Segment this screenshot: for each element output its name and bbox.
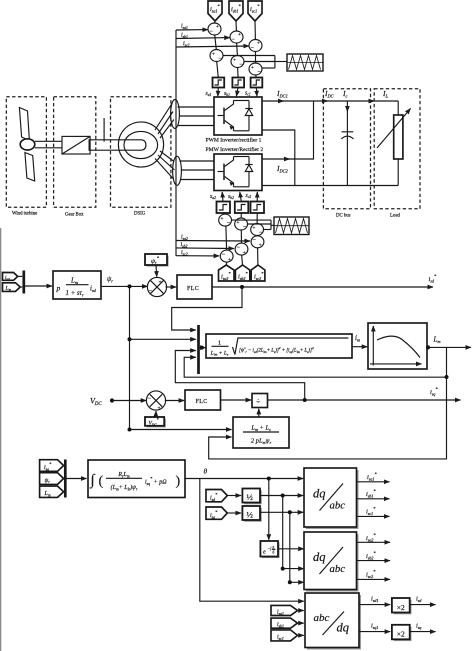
hysteresis comparator A1 — [213, 78, 225, 88]
magnetizing inductance curve block — [368, 323, 427, 369]
dq/abc block 1 — [306, 470, 359, 529]
stator winding 2 fan lines — [160, 151, 174, 162]
wire hysteresis C1 to inverter1 — [255, 88, 258, 97]
summer C2 — [251, 236, 264, 248]
freewheel diode D2 inside inverter 2 — [234, 157, 253, 187]
wire summer A1 to carrier summer A — [215, 35, 217, 50]
reference tag i*_sb2 — [235, 265, 249, 281]
wire hysteresis B2 from carrier summer B2 — [240, 213, 242, 218]
wire half1 branch down to dq/abc 2 — [283, 496, 304, 569]
wire i*_sq to magnitude merge — [175, 351, 304, 401]
wire tag3 to summer C1 — [254, 21, 256, 39]
svg-text:dq: dq — [313, 550, 326, 564]
svg-text:×2: ×2 — [397, 603, 405, 612]
wire i_sa1 feedback — [176, 29, 208, 31]
carrier summer A2 — [219, 214, 232, 226]
svg-text:+: + — [259, 244, 262, 249]
wire flux summer to FLC — [166, 286, 177, 288]
wire FLC2 to divider — [221, 399, 252, 401]
wire theta to phase shift block — [268, 479, 270, 540]
dq1 output i*_sb1 — [357, 498, 390, 500]
svg-text:½: ½ — [247, 510, 254, 520]
dq2 output i*_sb2 — [357, 560, 391, 562]
stator winding 2 terminal ellipse — [173, 156, 182, 185]
svg-text:abc: abc — [330, 500, 346, 512]
DSIG inner rotor ellipse — [124, 131, 158, 158]
abc/dq output i_sq1 to times2 — [359, 631, 390, 633]
summer A1 — [208, 23, 221, 35]
wire hysteresis B2 to inverter 2 — [240, 192, 242, 202]
summer A2 — [220, 250, 233, 262]
abc/dq block — [307, 595, 361, 650]
carrier summer B1 — [231, 56, 244, 68]
svg-text:DC bus: DC bus — [336, 214, 351, 219]
carrier bus line B2 — [248, 223, 272, 225]
hysteresis comparator C1 — [251, 78, 263, 88]
freewheel diode D1 inside inverter 1 — [234, 101, 253, 131]
svg-text:Gear Box: Gear Box — [65, 213, 84, 218]
carrier summer A1 — [210, 50, 223, 62]
svg-text:+: + — [233, 59, 236, 64]
wire psi_r down branch — [129, 286, 131, 429]
wire theta to dq/abc 1 — [185, 478, 303, 480]
wire carrier summer A1 to hysteresis A1 — [217, 62, 219, 78]
wire V_DC to voltage summer — [112, 400, 146, 402]
svg-text:e: e — [263, 550, 266, 556]
wire merge to flux estimator block — [25, 285, 52, 287]
wire tag i*_sa2 to summer A2 — [225, 262, 227, 265]
wire carrier bus to triangle generator 2 — [271, 224, 274, 226]
carrier summer C1 — [249, 63, 262, 75]
measured current tag i_sa1 — [271, 605, 298, 615]
wire gain block up to divider — [258, 409, 260, 417]
svg-text:): ) — [176, 474, 181, 489]
summer B1 — [230, 31, 243, 43]
gain block (Lm+Ls)/(2pLm psi_r) — [233, 417, 289, 448]
measurement bus vertical stator 1 — [175, 30, 177, 256]
svg-text:+: + — [159, 280, 162, 286]
input tag i_sd — [3, 273, 18, 281]
wire V_DC star to voltage summer — [155, 411, 157, 417]
wire FLC to i*_sd output — [212, 286, 433, 288]
wire curve block to L_m arrow — [427, 346, 471, 348]
svg-text:+: + — [237, 221, 240, 226]
rotor flux estimator block p Lm/(1+s tau_r) i_sd — [53, 271, 101, 299]
PMW inverter/rectifier 2 block — [214, 154, 262, 191]
capacitor C wire with I_c arrow — [346, 101, 348, 112]
svg-text:2 pLmψr: 2 pLmψr — [251, 438, 272, 445]
dq1 output i*_sc1 — [357, 515, 390, 517]
wire summer C1 to carrier summer C — [255, 52, 257, 64]
svg-text:+: + — [228, 258, 231, 263]
svg-text:+: + — [243, 251, 246, 256]
svg-text:+: + — [238, 33, 241, 38]
wire psi_r star to flux summer — [155, 265, 158, 277]
phase shift block e^-j pi/6 — [262, 543, 280, 559]
svg-text:PWM Inverter/rectifier 1: PWM Inverter/rectifier 1 — [206, 137, 262, 144]
wire carrier bus to triangle generator 1 — [275, 61, 287, 63]
carrier bus vertical 1 — [274, 56, 276, 69]
reference tag i*_sc1 — [248, 1, 262, 21]
carrier bus line A2 — [232, 219, 272, 221]
wire times2 to i_sq — [410, 631, 436, 633]
svg-text:+: + — [212, 53, 215, 58]
wire carrier summer B1 to hysteresis B1 — [237, 68, 240, 78]
svg-text:FLC: FLC — [196, 399, 208, 405]
svg-text:FLC: FLC — [187, 286, 199, 292]
svg-text:−: − — [149, 289, 153, 295]
wire hysteresis A2 to inverter 2 — [221, 192, 224, 202]
svg-text:+: + — [158, 406, 161, 412]
stator 1 phase lines to inverter 1 — [178, 106, 215, 108]
input tag L_m — [3, 283, 21, 292]
svg-text:1 + sτr: 1 + sτr — [66, 290, 84, 297]
voltage summer X circle — [146, 391, 165, 410]
wire i_sa2 feedback — [176, 240, 250, 243]
capacitor C plates — [342, 131, 354, 133]
wire voltage summer to FLC2 — [165, 400, 184, 402]
hysteresis comparator B2 — [235, 202, 249, 214]
svg-text:dq: dq — [313, 487, 326, 501]
FLC flux controller block — [177, 275, 212, 299]
svg-text:p: p — [56, 284, 61, 293]
dq2 output i*_sa2 — [357, 541, 391, 543]
load dashed box — [374, 89, 420, 209]
merge bar magnitude block inputs — [197, 325, 200, 374]
wire half2 branch down to dq/abc 2 — [290, 512, 304, 582]
carrier bus vertical 2 — [270, 220, 272, 229]
wire psi_r to magnitude merge — [130, 338, 196, 340]
DSIG outer stator circle — [118, 122, 163, 167]
triangle carrier generator 1 — [287, 54, 323, 71]
reference tag i*_sb1 — [229, 1, 243, 21]
wire tag i*_sb2 to summer B2 — [241, 255, 244, 265]
DC positive rail — [262, 100, 284, 102]
stator 2 phase lines to inverter 2 — [180, 160, 215, 162]
wire summer B1 to carrier summer B — [236, 43, 239, 56]
svg-text:Load: Load — [390, 214, 400, 219]
DSIG dashed box — [111, 97, 171, 208]
wire psi_r to gain block — [128, 428, 132, 432]
svg-text:abc: abc — [314, 612, 330, 624]
carrier bus line B1 — [244, 61, 275, 63]
carrier summer C2 — [251, 224, 264, 236]
wire carrier summer B2 from summer B2 — [240, 230, 242, 243]
gear box dashed box — [54, 97, 96, 208]
svg-text:+: + — [221, 217, 224, 222]
divider block — [252, 394, 268, 408]
wire merge to integral block — [67, 478, 87, 480]
gear box symbol — [62, 136, 90, 154]
turbine blade lower — [25, 153, 35, 182]
wire times2 to i_sd — [410, 604, 436, 606]
wire i_sb1 feedback — [176, 37, 230, 40]
carrier bus line A1 — [223, 55, 275, 57]
wire flux estimator to flux summer — [101, 285, 148, 287]
half gain block 2 — [244, 508, 262, 522]
wire hysteresis C2 to inverter 2 — [256, 192, 258, 202]
wire divider to i*_sq output — [268, 399, 461, 401]
svg-text:Llm + Ls: Llm + Ls — [210, 351, 229, 357]
hysteresis comparator C2 — [251, 202, 265, 214]
svg-text:+: + — [251, 66, 254, 71]
wire i_sb2 feedback — [176, 247, 234, 250]
wire L_m to magnitude merge — [184, 347, 446, 377]
wire L_m feedback down to 2pLm block — [209, 377, 447, 459]
svg-text:PMW Inverter/Rectifier 2: PMW Inverter/Rectifier 2 — [206, 146, 264, 153]
measured current tag i_sb1 — [271, 618, 298, 628]
PWM inverter/rectifier 1 block — [214, 97, 262, 135]
wire carrier summer C1 to hysteresis C1 — [255, 75, 258, 78]
wire hysteresis A2 from carrier summer A2 — [224, 213, 225, 214]
low speed shaft — [35, 140, 62, 142]
wire carrier summer A2 from summer A2 — [225, 226, 228, 250]
reference tag i*_sc2 — [251, 265, 265, 281]
wire carrier summer C2 from summer C2 — [256, 235, 258, 237]
svg-text:+: + — [257, 42, 260, 47]
svg-text:+: + — [216, 25, 219, 30]
input tag i*_sd to half gain — [206, 490, 227, 502]
wire tag1 to summer A1 — [214, 21, 216, 23]
dq2 output i*_sc2 — [357, 578, 391, 580]
svg-text:+: + — [253, 227, 256, 232]
svg-text:×2: ×2 — [397, 630, 405, 639]
theta integrator block — [88, 460, 185, 498]
merge bar flux estimator inputs — [22, 271, 25, 294]
carrier bus line C2 — [264, 229, 272, 231]
wire i_sc2 feedback — [176, 255, 219, 257]
svg-text:abc: abc — [330, 563, 346, 575]
summer B2 — [235, 243, 248, 255]
high speed shaft capsule — [89, 140, 146, 150]
wire hysteresis A1 to inverter1 — [217, 88, 220, 97]
svg-text:6: 6 — [273, 551, 275, 555]
input tag i*_sq bottom — [40, 460, 64, 472]
wire tag i*_sc2 to summer C2 — [257, 248, 259, 265]
half gain block 1 — [244, 490, 262, 504]
input tag i*_sq to half gain — [206, 507, 227, 519]
merge bar integral block inputs — [64, 460, 67, 498]
speed sensor line — [103, 118, 105, 142]
hysteresis comparator A2 — [217, 202, 231, 214]
svg-text:DSIG: DSIG — [134, 212, 146, 217]
triangle carrier generator 2 — [274, 217, 309, 235]
inverter 2 output wire I_DC2 — [262, 158, 290, 160]
wire half2 to dq/abc 1 — [260, 511, 303, 513]
magnetizing current magnitude block — [206, 334, 352, 358]
input tag L_m bottom — [40, 486, 64, 497]
reference box psi_r star — [147, 256, 169, 267]
summer C1 — [249, 40, 262, 52]
reference tag i*_sa1 — [208, 1, 222, 21]
carrier bus line C1 — [262, 67, 275, 69]
DC negative rail — [263, 185, 399, 187]
svg-text:Wind turbine: Wind turbine — [12, 212, 37, 217]
dq/abc block 2 — [306, 534, 359, 592]
reference box V_DC star — [147, 419, 166, 428]
variable load resistor — [397, 101, 399, 115]
svg-text:dq: dq — [337, 621, 350, 635]
svg-text:θ: θ — [204, 467, 208, 476]
svg-text:(: ( — [99, 474, 104, 489]
wire magnitude block to saturation curve block — [352, 346, 367, 348]
inverter 1 negative connection — [262, 130, 295, 186]
dq1 output i*_sa1 — [357, 481, 390, 483]
wire half1 to dq/abc 1 — [260, 495, 303, 497]
abc/dq output i_sd1 to times2 — [359, 604, 390, 606]
wire theta down to abc/dq — [200, 479, 304, 602]
wire hysteresis C2 from carrier summer C2 — [256, 213, 258, 224]
stator winding 1 fan lines — [155, 104, 172, 131]
carrier summer B2 — [235, 218, 248, 230]
svg-text:−: − — [222, 252, 226, 258]
hysteresis comparator B1 — [232, 78, 244, 88]
turbine hub — [20, 139, 35, 150]
reference tag i*_sa2 — [219, 265, 235, 281]
measured current tag i_sc1 — [271, 630, 298, 641]
wind turbine dashed box — [6, 97, 46, 208]
turbine blade upper — [19, 108, 29, 141]
scan edge artifact left border — [0, 228, 2, 651]
wire tag2 to summer B1 — [235, 21, 237, 31]
flux summer X circle — [147, 277, 166, 296]
svg-text:(Lm+ Llr)ψr: (Lm+ Llr)ψr — [111, 484, 138, 491]
wire merge to magnitude block — [200, 347, 206, 349]
svg-text:½: ½ — [247, 492, 254, 502]
IGBT Q2 inside inverter 2 — [218, 157, 234, 187]
wire i_sc1 feedback — [176, 46, 249, 47]
wire hysteresis B1 to inverter1 — [236, 88, 238, 97]
svg-text:Lm + Ls: Lm + Ls — [250, 425, 271, 432]
wire i*_sd step path to magnitude merge — [172, 287, 242, 330]
times 2 gain block 1 — [394, 600, 412, 615]
stator winding 1 terminal ellipse — [171, 100, 180, 129]
DC bus dashed box — [323, 89, 370, 209]
wire phase shift to dq/abc 2 — [278, 548, 304, 550]
svg-text:÷: ÷ — [256, 397, 261, 406]
FLC voltage controller block — [185, 390, 221, 410]
input tag psi_r bottom — [40, 473, 64, 485]
svg-text:1: 1 — [218, 340, 221, 347]
IGBT Q1 inside inverter 1 — [218, 101, 234, 131]
times 2 gain block 2 — [394, 627, 412, 642]
